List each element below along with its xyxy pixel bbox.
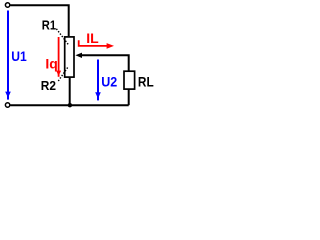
wiper arrow into potentiometer <box>75 53 82 58</box>
leader dotted line R1 <box>56 29 68 45</box>
svg-text:R2: R2 <box>41 78 56 93</box>
leader dotted line R2 <box>58 67 68 81</box>
background <box>0 0 158 112</box>
wire: top from input terminal to potentiometer top <box>10 5 68 36</box>
current arrow Iq <box>58 37 60 77</box>
junction dot: pot branch on bottom rail <box>68 103 72 107</box>
svg-text:Iq: Iq <box>45 55 57 71</box>
resistor RL body <box>124 71 135 89</box>
wire: bottom rail <box>10 104 129 106</box>
terminal: input top <box>5 3 9 7</box>
svg-text:RL: RL <box>138 73 154 89</box>
svg-text:IL: IL <box>86 30 99 46</box>
potentiometer body (R1+R2) <box>65 37 74 77</box>
svg-text:U1: U1 <box>11 48 27 64</box>
voltage arrow U1 <box>7 11 9 100</box>
svg-text:R1: R1 <box>42 18 56 33</box>
current arrow IL <box>79 40 107 46</box>
svg-text:U2: U2 <box>101 74 117 90</box>
terminal: input bottom <box>5 103 9 107</box>
voltage arrow U2 <box>97 60 99 101</box>
wire: RL bottom to bottom rail <box>128 90 130 106</box>
wire: wiper to RL top <box>81 54 129 71</box>
wire: potentiometer bottom to bottom rail <box>69 78 71 105</box>
